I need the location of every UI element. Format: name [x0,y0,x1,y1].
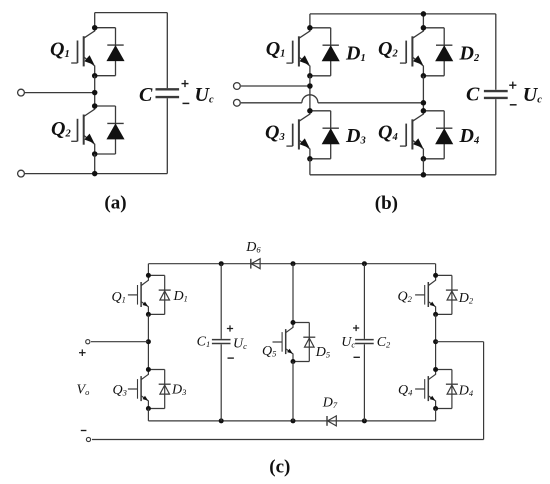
label D4 (circuit b) [459,125,480,147]
wire: (a) bottom rail [25,173,167,175]
node: (c) Q5 bottom junction [291,418,296,423]
label D6 (circuit c) [245,240,261,255]
label D7 (circuit c) [322,396,338,411]
label D1 (circuit b) [345,43,366,65]
node: Q3 emitter (b) [307,156,313,162]
wire: (b) upper input lead [241,85,310,87]
label Q4 (circuit c) [398,383,413,398]
label C (circuit b) [466,84,480,106]
label Q1 (circuit b) [266,38,286,60]
wire: (c) right midpoint to outer vertical [436,341,484,343]
transistor Q3 (IGBT, circuit b) [286,111,310,159]
node: (b) left midpoint junction [307,83,313,89]
wire: circuit (b) top rail [310,13,496,15]
node: (b) right midpoint junction [421,100,427,106]
diode D5 (circuit c) [293,323,315,362]
node: (b) bottom rail junction [421,172,427,178]
node: Q4 collector (c) [433,367,438,372]
wire: (c) positive input lead [91,341,148,343]
node: Q1 collector (c) [146,273,151,278]
terminal: (c) negative input circle [86,437,90,441]
node: Q1 emitter (c) [146,312,151,317]
transistor Q1 (IGBT, circuit c) [128,275,148,314]
label + of C (b) [509,82,516,89]
node: Q2 collector (c) [433,273,438,278]
node: (a) bottom junction [92,171,98,177]
label D2 (circuit c) [458,291,474,306]
wire: (a) leg between Q1 and Q2 [94,76,96,106]
label − of input (c) [81,430,87,432]
capacitor C (circuit a) [156,89,180,97]
diode across Q2 (circuit a) [95,106,124,154]
diode D4 (circuit c) [436,370,458,409]
label − of C (b) [510,104,517,106]
label C (circuit a) [139,84,153,106]
wire: (b) left leg top segment [309,14,311,28]
capacitor C (circuit b) [484,91,508,98]
node: Q1 collector (b) [307,25,313,31]
node: Q5 emitter (c) [291,359,296,364]
node: Q4 emitter (b) [421,156,427,162]
wire: (b) right leg middle [422,76,424,111]
node: Q2 collector (b) [421,25,427,31]
label (b) caption [375,193,398,214]
capacitor C2 (circuit c) [355,340,374,344]
label C2 (circuit c) [377,335,391,350]
wire: (c) inner bottom rail [148,420,435,422]
label D2 (circuit b) [459,43,480,65]
transistor Q4 (IGBT, circuit c) [415,370,436,409]
wire: (c) left leg bottom segment [147,409,149,421]
node: Q3 emitter (c) [146,406,151,411]
node: Q3 collector (b) [307,108,313,114]
svg-text:(c): (c) [269,456,290,477]
label − of C1 (c) [228,357,234,359]
diode D1 (circuit b) [310,28,339,76]
label Uc of C2 (c) [341,335,355,350]
transistor Q4 (IGBT, circuit b) [400,111,424,159]
wire: circuit (a) top rail [95,12,168,14]
transistor Q2 (IGBT, circuit a) [71,106,95,154]
wire: (c) C2 column lower [363,344,365,421]
wire: (b) bottom rail [310,174,496,176]
label Q2 (circuit b) [378,38,398,60]
label Uc (circuit a) [195,84,214,106]
wire: (c) Q5 column lower [292,362,294,421]
node: Q1 emitter (b) [307,73,313,79]
terminal: (a) lower input circle [18,170,25,177]
node A: (a) midpoint junction [92,90,98,96]
label − of C2 (c) [354,356,360,358]
label Vo (circuit c) [77,383,90,398]
diode D3 (circuit c) [148,370,170,409]
node: Q3 collector (c) [146,367,151,372]
node: Q2 collector (a) [92,103,98,109]
wire: (c) C2 column upper [363,264,365,339]
diode D6 (circuit c) [251,259,260,269]
svg-text:(b): (b) [375,193,398,214]
label Uc (circuit b) [523,84,542,106]
wire: (c) left leg middle [147,314,149,369]
transistor Q3 (IGBT, circuit c) [128,370,148,409]
wire: (c) outer bottom rail [92,439,484,441]
wire: (b) capacitor column lower [495,99,497,175]
diode D2 (circuit c) [436,275,458,314]
label + of input (c) [79,349,86,356]
wire: (b) left leg middle [309,76,311,111]
wire: (a) leg lower segment [94,154,96,174]
label Uc of C1 (c) [233,336,247,351]
node: Q4 emitter (c) [433,406,438,411]
label Q4 (circuit b) [378,122,398,144]
wire: (b) capacitor column upper [495,14,497,90]
label D3 (circuit c) [171,383,186,398]
node: Q4 collector (b) [421,108,427,114]
diode across Q1 (circuit a) [95,28,124,76]
label Q1 (circuit c) [112,290,126,305]
wire: (c) left leg top segment [147,264,149,276]
node: (b) top rail junction [421,11,427,17]
wire: (b) right leg top segment [422,14,424,28]
terminal: (b) lower input circle [234,99,241,106]
label D4 (circuit c) [458,384,474,399]
label + of C1 (c) [227,325,233,331]
transistor Q5 (IGBT, circuit c) [273,323,294,362]
wire: (c) right leg middle [435,314,437,369]
terminal: (c) positive input circle [86,340,90,344]
node: Q5 collector (c) [291,320,296,325]
diode D4 (circuit b) [423,111,452,159]
node: Q2 emitter (c) [433,312,438,317]
label (a) caption [104,192,126,213]
wire: (c) right leg bottom segment [435,409,437,421]
node: (c) Q5 top junction [291,261,296,266]
label D5 (circuit c) [315,345,330,360]
label Q2 (circuit c) [398,290,413,305]
wire: (c) right leg top segment [435,264,437,276]
label D1 (circuit c) [173,289,188,304]
wire: (a) upper input lead [25,92,95,94]
label − of C (a) [183,102,190,104]
svg-text:C: C [466,84,480,106]
node: (c) C2 bottom junction [362,418,367,423]
diode D1 (circuit c) [148,275,170,314]
transistor Q2 (IGBT, circuit c) [415,275,436,314]
wire: (c) top rail [148,263,435,265]
node: (c) C1 bottom junction [219,418,224,423]
wire: (c) outer right vertical [483,342,485,440]
node: (c) C2 top junction [362,261,367,266]
wire: (b) left leg bottom segment [309,159,311,175]
label Q3 (circuit c) [113,383,127,398]
capacitor C1 (circuit c) [212,340,231,344]
wire: (a) capacitor column upper [166,13,168,89]
wire: circuit (a) left leg upper segment [94,13,96,28]
transistor Q1 (IGBT, circuit a) [71,28,95,76]
label + of C (a) [182,80,189,87]
wire: (c) Q5 column upper [292,264,294,323]
wire: (c) C1 column upper [220,264,222,339]
node: Q2 emitter (a) [92,151,98,157]
terminal: (a) upper input circle [18,89,25,96]
node: Q1 collector (a) [92,25,98,31]
wire: (c) C1 column lower [220,344,222,421]
label C1 (circuit c) [197,335,211,350]
svg-text:(a): (a) [104,192,126,213]
transistor Q2 (IGBT, circuit b) [400,28,424,76]
label Q5 (circuit c) [262,344,276,359]
label Q1 (circuit a) [50,39,70,61]
wire: (b) lower input lead with crossover hop [241,95,423,103]
svg-text:C: C [139,84,153,106]
label Q3 (circuit b) [265,122,285,144]
node: (c) right midpoint junction [433,339,438,344]
label D3 (circuit b) [345,125,366,147]
wire: (b) right leg bottom segment [422,159,424,175]
node: Q1 emitter (a) [92,73,98,79]
diode D2 (circuit b) [423,28,452,76]
label + of C2 (c) [353,325,359,331]
node: Q2 emitter (b) [421,73,427,79]
label Q2 (circuit a) [51,118,71,140]
diode D7 (circuit c) [327,416,336,426]
node: (c) left midpoint junction [146,339,151,344]
diode D3 (circuit b) [310,111,339,159]
node: (c) C1 top junction [219,261,224,266]
label (c) caption [269,456,290,477]
wire: (a) capacitor column lower [166,98,168,173]
terminal: (b) upper input circle [234,83,241,90]
transistor Q1 (IGBT, circuit b) [286,28,310,76]
